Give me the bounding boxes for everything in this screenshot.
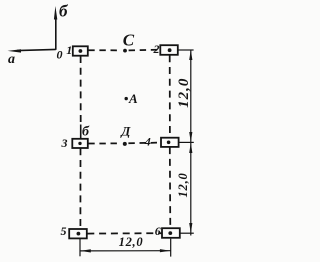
arrowhead up at top (189, 50, 192, 60)
extension line below point 6 (170, 239, 172, 257)
svg-text:5: 5 (61, 224, 67, 238)
arrowhead down at bottom (189, 223, 192, 233)
wire 3-4 dashed (middle) (88, 142, 121, 144)
svg-text:12,0: 12,0 (176, 172, 190, 197)
svg-text:1: 1 (66, 43, 72, 57)
svg-text:0: 0 (57, 48, 63, 62)
wire 2-4 dashed (right upper) (169, 55, 171, 137)
svg-text:3: 3 (61, 136, 68, 150)
dimension line bottom horizontal (80, 250, 171, 252)
arrowhead right at bottom dim (160, 249, 171, 252)
extension line from point 2 (178, 49, 193, 51)
anchor point 1 (73, 46, 88, 55)
wire 1-2 dashed (top) (88, 49, 121, 51)
node D marker dot (123, 142, 127, 146)
anchor point 5 (69, 229, 87, 238)
svg-text:А: А (128, 91, 138, 106)
dimension line right vertical (190, 50, 192, 236)
node C marker dot (123, 49, 127, 53)
anchor point 2 (160, 45, 178, 55)
svg-text:12,0: 12,0 (119, 235, 144, 249)
wire 3-5 dashed (left lower) (79, 148, 81, 229)
wire 4-6 dashed (right lower) (169, 147, 172, 228)
anchor point 6 (162, 228, 180, 238)
svg-text:12,0: 12,0 (176, 78, 192, 108)
svg-text:6: 6 (155, 224, 161, 238)
svg-text:а: а (8, 52, 15, 67)
axis a (horizontal) (8, 49, 56, 52)
extension line from point 6 (180, 232, 194, 234)
axis b (vertical) (54, 6, 57, 50)
extension line below point 5 (79, 239, 81, 256)
anchor point 3 (72, 139, 88, 148)
svg-text:4: 4 (144, 134, 151, 148)
arrowhead up lower-middle (189, 143, 192, 153)
arrowhead down upper-middle (189, 132, 192, 142)
arrowhead left at bottom dim (80, 249, 91, 252)
svg-text:С: С (123, 30, 135, 49)
wire 1-3 dashed (left upper) (80, 56, 82, 124)
anchor point 4 (161, 138, 179, 147)
node B stub (solid) (80, 125, 82, 139)
svg-text:б: б (82, 124, 90, 139)
extension line from point 4 (179, 141, 194, 143)
svg-text:Д: Д (120, 123, 131, 138)
node A marker dot (125, 97, 128, 100)
wire 5-6 dashed (bottom) (87, 232, 161, 234)
